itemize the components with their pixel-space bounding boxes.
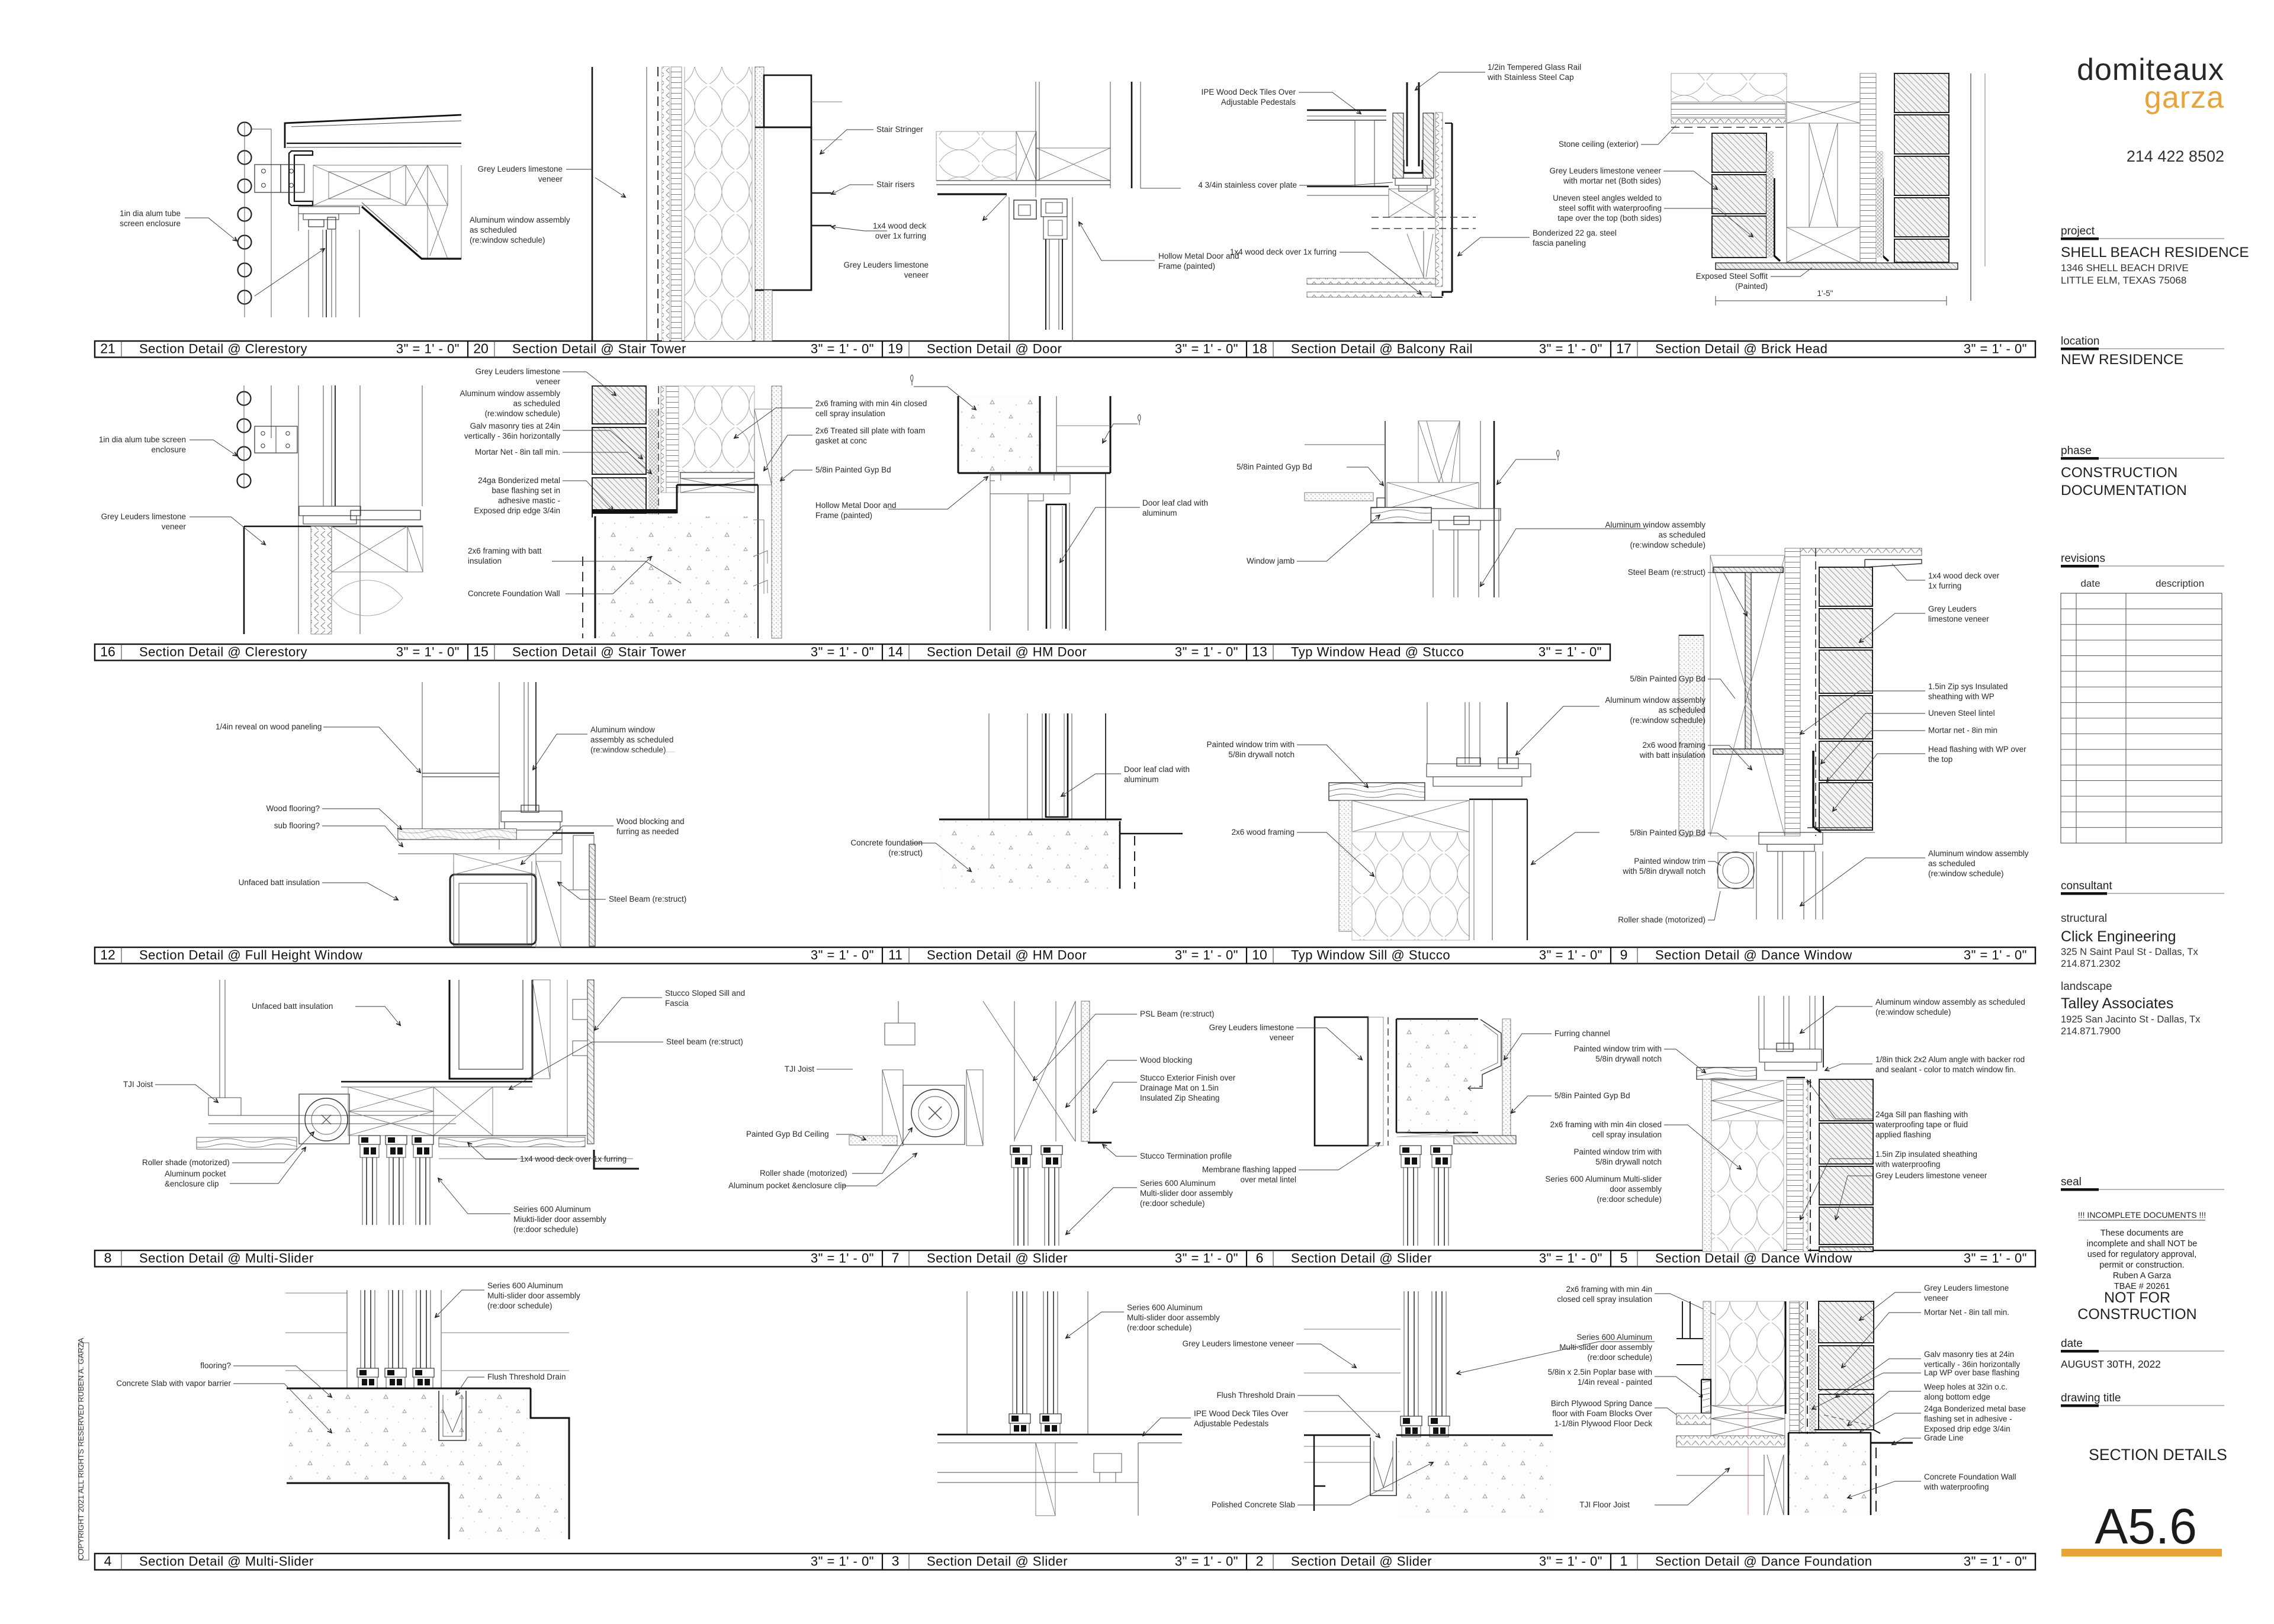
svg-text:Aluminum window assembly: Aluminum window assembly	[1928, 849, 2029, 858]
svg-text:veneer: veneer	[904, 271, 929, 279]
svg-text:4: 4	[104, 1554, 112, 1569]
svg-text:2x6 framing with min 4in close: 2x6 framing with min 4in closed	[815, 399, 927, 408]
svg-text:&enclosure clip: &enclosure clip	[165, 1179, 219, 1188]
svg-text:Galv masonry ties at 24in: Galv masonry ties at 24in	[470, 422, 560, 430]
svg-text:2x6 framing with min 4in close: 2x6 framing with min 4in closed	[1550, 1120, 1662, 1129]
svg-text:2x6 framing with min 4in: 2x6 framing with min 4in	[1566, 1285, 1652, 1294]
svg-text:Concrete Foundation Wall: Concrete Foundation Wall	[1924, 1472, 2016, 1481]
svg-text:enclosure: enclosure	[151, 445, 186, 454]
svg-text:floor with Foam Blocks Over: floor with Foam Blocks Over	[1552, 1409, 1652, 1418]
svg-text:15: 15	[473, 644, 489, 660]
svg-text:Mortar net - 8in min: Mortar net - 8in min	[1928, 726, 1997, 735]
svg-text:1-1/8in Plywood Floor Deck: 1-1/8in Plywood Floor Deck	[1554, 1419, 1652, 1428]
svg-text:Stucco Exterior Finish over: Stucco Exterior Finish over	[1140, 1073, 1236, 1082]
svg-text:Grey Leuders limestone veneer: Grey Leuders limestone veneer	[1183, 1339, 1295, 1348]
svg-text:Adjustable Pedestals: Adjustable Pedestals	[1221, 98, 1296, 107]
svg-text:1in dia alum tube: 1in dia alum tube	[120, 209, 181, 218]
svg-text:18: 18	[1252, 341, 1267, 356]
svg-text:drawing title: drawing title	[2061, 1392, 2121, 1404]
svg-text:24ga Sill pan flashing with: 24ga Sill pan flashing with	[1875, 1110, 1968, 1119]
svg-text:Grey Leuders limestone veneer: Grey Leuders limestone veneer	[1550, 166, 1662, 175]
svg-text:Stair Stringer: Stair Stringer	[876, 125, 923, 134]
svg-text:(re:window schedule): (re:window schedule)	[470, 236, 545, 245]
svg-text:(Painted): (Painted)	[1735, 282, 1768, 291]
svg-text:24ga Bonderized metal: 24ga Bonderized metal	[478, 476, 560, 485]
svg-text:door assembly: door assembly	[1610, 1185, 1662, 1194]
svg-text:Section Detail @ Full Height W: Section Detail @ Full Height Window	[139, 948, 362, 963]
svg-text:Exposed drip edge 3/4in: Exposed drip edge 3/4in	[474, 506, 560, 515]
svg-text:Uneven Steel lintel: Uneven Steel lintel	[1928, 709, 1995, 718]
svg-text:with waterproofing: with waterproofing	[1875, 1160, 1941, 1169]
svg-text:and sealant - color to match w: and sealant - color to match window fin.	[1875, 1065, 2016, 1074]
svg-text:Wood flooring?: Wood flooring?	[266, 804, 320, 813]
svg-text:Roller shade (motorized): Roller shade (motorized)	[142, 1158, 230, 1167]
svg-text:Painted window trim with: Painted window trim with	[1206, 740, 1295, 749]
svg-text:seal: seal	[2061, 1176, 2082, 1188]
svg-text:vertically - 36in horizontally: vertically - 36in horizontally	[1924, 1360, 2020, 1369]
svg-text:Flush Threshold Drain: Flush Threshold Drain	[1216, 1391, 1295, 1400]
svg-text:Fascia: Fascia	[665, 999, 689, 1008]
svg-text:A5.6: A5.6	[2095, 1498, 2197, 1554]
svg-text:CONSTRUCTION: CONSTRUCTION	[2061, 465, 2177, 481]
svg-text:1x4 wood deck over: 1x4 wood deck over	[1928, 571, 2000, 580]
svg-text:as scheduled: as scheduled	[470, 226, 517, 234]
svg-text:1x4 wood deck over 1x furring: 1x4 wood deck over 1x furring	[520, 1155, 627, 1163]
svg-text:LITTLE ELM, TEXAS 75068: LITTLE ELM, TEXAS 75068	[2061, 275, 2186, 286]
svg-text:Wood blocking and: Wood blocking and	[616, 817, 685, 826]
svg-text:2x6 wood framing: 2x6 wood framing	[1642, 741, 1705, 750]
svg-text:3" = 1' - 0": 3" = 1' - 0"	[1964, 948, 2027, 963]
svg-text:date: date	[2080, 578, 2100, 589]
svg-text:325 N Saint Paul St - Dallas,: 325 N Saint Paul St - Dallas, Tx	[2061, 947, 2198, 957]
svg-text:Mortar Net - 8in tall min.: Mortar Net - 8in tall min.	[1924, 1308, 2009, 1317]
svg-text:Grey Leuders limestone: Grey Leuders limestone	[1209, 1023, 1294, 1032]
svg-text:19: 19	[888, 341, 903, 356]
svg-text:Galv masonry ties at 24in: Galv masonry ties at 24in	[1924, 1350, 2014, 1359]
svg-text:DOCUMENTATION: DOCUMENTATION	[2061, 483, 2187, 499]
svg-text:Painted Gyp Bd Ceiling: Painted Gyp Bd Ceiling	[746, 1130, 829, 1139]
svg-text:insulation: insulation	[468, 557, 502, 565]
svg-text:Stone ceiling (exterior): Stone ceiling (exterior)	[1559, 140, 1639, 149]
svg-text:Section Detail @ Slider: Section Detail @ Slider	[1291, 1251, 1432, 1266]
svg-text:4 3/4in stainless cover plate: 4 3/4in stainless cover plate	[1198, 181, 1297, 189]
svg-text:Grey Leuders limestone: Grey Leuders limestone	[476, 367, 560, 376]
svg-text:Insulated Zip Sheating: Insulated Zip Sheating	[1140, 1094, 1219, 1102]
svg-text:as scheduled: as scheduled	[1658, 530, 1705, 539]
svg-text:veneer: veneer	[1270, 1033, 1295, 1042]
svg-text:garza: garza	[2144, 81, 2224, 115]
svg-text:Weep holes at 32in o.c.: Weep holes at 32in o.c.	[1924, 1382, 2008, 1391]
svg-text:214.871.7900: 214.871.7900	[2061, 1026, 2121, 1037]
svg-text:Section Detail @ Door: Section Detail @ Door	[927, 342, 1062, 356]
svg-text:Section Detail @ Dance Foundat: Section Detail @ Dance Foundation	[1655, 1554, 1872, 1569]
svg-text:closed cell spray insulation: closed cell spray insulation	[1557, 1295, 1652, 1304]
svg-text:as scheduled: as scheduled	[1928, 859, 1976, 868]
svg-text:veneer: veneer	[538, 175, 563, 184]
svg-text:3" = 1' - 0": 3" = 1' - 0"	[1964, 1554, 2027, 1569]
svg-text:5/8in x 2.5in Poplar base with: 5/8in x 2.5in Poplar base with	[1548, 1368, 1652, 1377]
svg-text:Grey Leuders: Grey Leuders	[1928, 604, 1977, 613]
svg-text:location: location	[2061, 335, 2100, 348]
svg-text:(re:window schedule): (re:window schedule)	[1630, 541, 1705, 549]
svg-text:Grey Leuders limestone: Grey Leuders limestone	[478, 165, 563, 173]
svg-text:Grade Line: Grade Line	[1924, 1433, 1964, 1442]
svg-text:3" = 1' - 0": 3" = 1' - 0"	[1539, 948, 1602, 963]
svg-text:These documents are: These documents are	[2100, 1229, 2183, 1238]
svg-text:flooring?: flooring?	[200, 1361, 231, 1370]
svg-text:Concrete foundation: Concrete foundation	[850, 838, 923, 847]
svg-text:veneer: veneer	[162, 522, 187, 531]
svg-text:3" = 1' - 0": 3" = 1' - 0"	[1964, 1251, 2027, 1266]
svg-text:project: project	[2061, 225, 2095, 237]
svg-text:with 5/8in drywall notch: with 5/8in drywall notch	[1622, 867, 1705, 876]
svg-text:214.871.2302: 214.871.2302	[2061, 959, 2121, 969]
svg-text:Talley Associates: Talley Associates	[2061, 995, 2173, 1012]
svg-text:steel soffit with waterproofin: steel soffit with waterproofing	[1559, 204, 1662, 213]
svg-text:Painted window trim with: Painted window trim with	[1573, 1044, 1662, 1053]
svg-text:Section Detail @ Stair Tower: Section Detail @ Stair Tower	[512, 342, 686, 356]
svg-text:Series 600 Aluminum: Series 600 Aluminum	[1127, 1303, 1203, 1312]
svg-text:Mortar Net - 8in tall min.: Mortar Net - 8in tall min.	[475, 448, 560, 456]
svg-text:Typ Window Sill @ Stucco: Typ Window Sill @ Stucco	[1291, 948, 1450, 963]
svg-text:Section Detail @ Balcony Rail: Section Detail @ Balcony Rail	[1291, 342, 1473, 356]
svg-text:Roller shade (motorized): Roller shade (motorized)	[1618, 915, 1705, 924]
svg-text:tape over the top (both sides): tape over the top (both sides)	[1557, 214, 1662, 223]
svg-text:(re:window schedule): (re:window schedule)	[1928, 869, 2004, 878]
svg-text:Frame (painted): Frame (painted)	[1158, 262, 1215, 271]
svg-text:furring as needed: furring as needed	[616, 827, 679, 836]
svg-text:1'-5": 1'-5"	[1817, 289, 1833, 298]
svg-text:Roller shade (motorized): Roller shade (motorized)	[760, 1169, 847, 1178]
svg-text:Section Detail @ Slider: Section Detail @ Slider	[927, 1251, 1068, 1266]
svg-text:as scheduled: as scheduled	[513, 399, 560, 408]
svg-text:PSL Beam (re:struct): PSL Beam (re:struct)	[1140, 1009, 1215, 1018]
svg-text:Unfaced batt insulation: Unfaced batt insulation	[252, 1002, 333, 1011]
svg-text:revisions: revisions	[2061, 552, 2105, 565]
svg-text:Aluminum window assembly: Aluminum window assembly	[1605, 696, 1705, 705]
svg-text:Aluminum window: Aluminum window	[590, 725, 655, 734]
svg-text:along bottom edge: along bottom edge	[1924, 1393, 1990, 1401]
svg-text:(re:door schedule): (re:door schedule)	[1127, 1323, 1192, 1332]
svg-text:Hollow Metal Door and: Hollow Metal Door and	[815, 501, 897, 510]
svg-text:TJI Joist: TJI Joist	[123, 1080, 153, 1089]
svg-text:Grey Leuders limestone: Grey Leuders limestone	[1924, 1284, 2009, 1292]
svg-text:5: 5	[1620, 1250, 1628, 1266]
svg-text:Seiries 600 Aluminum: Seiries 600 Aluminum	[513, 1205, 591, 1214]
svg-text:3" = 1' - 0": 3" = 1' - 0"	[1964, 342, 2027, 356]
svg-text:Section Detail @ Brick Head: Section Detail @ Brick Head	[1655, 342, 1827, 356]
svg-text:Head flashing with WP over: Head flashing with WP over	[1928, 745, 2026, 754]
svg-text:1: 1	[1620, 1554, 1628, 1569]
svg-text:Section Detail @ Dance Window: Section Detail @ Dance Window	[1655, 1251, 1852, 1266]
svg-text:TJI Floor Joist: TJI Floor Joist	[1579, 1500, 1630, 1509]
svg-text:Aluminum pocket &enclosure cli: Aluminum pocket &enclosure clip	[728, 1181, 846, 1190]
svg-text:21: 21	[100, 341, 115, 356]
svg-text:Aluminum window assembly: Aluminum window assembly	[470, 216, 570, 224]
svg-text:sub flooring?: sub flooring?	[274, 821, 320, 830]
svg-text:Aluminum window assembly as s: Aluminum window assembly as scheduled	[1875, 998, 2025, 1006]
svg-text:Series 600 Aluminum: Series 600 Aluminum	[1576, 1333, 1652, 1342]
svg-text:5/8in Painted Gyp Bd: 5/8in Painted Gyp Bd	[815, 465, 891, 474]
svg-text:incomplete and shall NOT be: incomplete and shall NOT be	[2087, 1239, 2198, 1249]
svg-text:Exposed Steel Soffit: Exposed Steel Soffit	[1696, 272, 1768, 281]
svg-text:Series 600 Aluminum Multi-slid: Series 600 Aluminum Multi-slider	[1545, 1175, 1662, 1184]
svg-text:Concrete Foundation Wall: Concrete Foundation Wall	[468, 589, 560, 598]
svg-text:phase: phase	[2061, 445, 2092, 457]
svg-text:5/8in Painted Gyp Bd: 5/8in Painted Gyp Bd	[1554, 1091, 1630, 1100]
svg-text:waterproofing tape or fluid: waterproofing tape or fluid	[1875, 1120, 1968, 1129]
svg-text:sheathing with WP: sheathing with WP	[1928, 692, 1994, 701]
svg-text:1.5in Zip sys Insulated: 1.5in Zip sys Insulated	[1928, 682, 2008, 691]
svg-text:Click Engineering: Click Engineering	[2061, 928, 2176, 945]
svg-text:assembly as scheduled: assembly as scheduled	[590, 735, 673, 744]
svg-text:3" = 1' - 0": 3" = 1' - 0"	[811, 948, 874, 963]
svg-text:3" = 1' - 0": 3" = 1' - 0"	[1175, 342, 1238, 356]
svg-text:1in dia alum tube screen: 1in dia alum tube screen	[99, 435, 186, 444]
svg-text:Uneven steel angles welded to: Uneven steel angles welded to	[1553, 194, 1662, 202]
svg-text:Aluminum window assembly: Aluminum window assembly	[1605, 520, 1705, 529]
svg-text:NOT FOR: NOT FOR	[2104, 1289, 2170, 1306]
svg-text:veneer: veneer	[536, 377, 561, 386]
svg-text:7: 7	[892, 1250, 900, 1266]
svg-text:3" = 1' - 0": 3" = 1' - 0"	[811, 645, 874, 660]
svg-text:as scheduled: as scheduled	[1658, 706, 1705, 715]
svg-text:Door leaf clad with: Door leaf clad with	[1124, 765, 1190, 774]
svg-text:3" = 1' - 0": 3" = 1' - 0"	[1175, 645, 1238, 660]
svg-text:Section Detail @ Slider: Section Detail @ Slider	[1291, 1554, 1432, 1569]
svg-text:3" = 1' - 0": 3" = 1' - 0"	[1539, 1251, 1602, 1266]
svg-text:AUGUST 30TH, 2022: AUGUST 30TH, 2022	[2061, 1358, 2161, 1370]
svg-text:TJI Joist: TJI Joist	[785, 1065, 815, 1073]
svg-text:flashing set in adhesive -: flashing set in adhesive -	[1924, 1414, 2012, 1423]
svg-text:NEW RESIDENCE: NEW RESIDENCE	[2061, 352, 2183, 368]
svg-text:5/8in Painted Gyp Bd: 5/8in Painted Gyp Bd	[1630, 828, 1705, 837]
svg-text:2x6 wood framing: 2x6 wood framing	[1231, 828, 1295, 837]
svg-text:Grey Leuders limestone: Grey Leuders limestone	[844, 261, 929, 269]
svg-text:Steel beam (re:struct): Steel beam (re:struct)	[666, 1037, 743, 1046]
svg-text:Section Detail @ Multi-Slider: Section Detail @ Multi-Slider	[139, 1554, 314, 1569]
svg-text:gasket at conc: gasket at conc	[815, 436, 867, 445]
svg-text:aluminum: aluminum	[1142, 509, 1177, 517]
svg-text:Flush Threshold Drain: Flush Threshold Drain	[487, 1372, 566, 1381]
svg-text:8: 8	[104, 1250, 112, 1266]
svg-text:Concrete Slab with vapor barri: Concrete Slab with vapor barrier	[116, 1379, 231, 1388]
svg-text:IPE Wood Deck Tiles Over: IPE Wood Deck Tiles Over	[1194, 1409, 1289, 1418]
svg-text:(re:door schedule): (re:door schedule)	[1587, 1353, 1652, 1362]
svg-text:Series 600 Aluminum: Series 600 Aluminum	[487, 1281, 563, 1290]
svg-text:1/4in reveal - painted: 1/4in reveal - painted	[1578, 1378, 1652, 1387]
svg-text:SECTION DETAILS: SECTION DETAILS	[2089, 1446, 2227, 1464]
svg-text:214 422 8502: 214 422 8502	[2127, 147, 2224, 165]
svg-text:3" = 1' - 0": 3" = 1' - 0"	[1175, 948, 1238, 963]
svg-text:12: 12	[100, 947, 115, 963]
svg-text:permit or construction.: permit or construction.	[2099, 1260, 2184, 1270]
svg-text:applied flashing: applied flashing	[1875, 1130, 1931, 1139]
svg-text:CONSTRUCTION: CONSTRUCTION	[2077, 1306, 2196, 1323]
svg-text:1/8in thick 2x2 Alum angle wit: 1/8in thick 2x2 Alum angle with backer r…	[1875, 1055, 2025, 1064]
svg-text:13: 13	[1252, 644, 1267, 660]
svg-text:Painted window trim: Painted window trim	[1634, 857, 1705, 866]
svg-text:2x6 Treated sill plate with fo: 2x6 Treated sill plate with foam	[815, 426, 925, 435]
svg-text:Grey Leuders limestone: Grey Leuders limestone	[101, 512, 186, 521]
svg-text:Door leaf clad with: Door leaf clad with	[1142, 499, 1208, 507]
svg-text:3" = 1' - 0": 3" = 1' - 0"	[811, 342, 874, 356]
svg-text:2: 2	[1256, 1554, 1264, 1569]
svg-text:Section Detail @ Clerestory: Section Detail @ Clerestory	[139, 342, 307, 356]
svg-text:1/2in Tempered Glass Rail: 1/2in Tempered Glass Rail	[1488, 63, 1581, 72]
svg-text:COPYRIGHT 2021 ALL RIGHTS: COPYRIGHT 2021 ALL RIGHTS RESERVED RUBEN…	[76, 1337, 85, 1560]
svg-text:Window jamb: Window jamb	[1247, 557, 1295, 565]
svg-text:(re:door schedule): (re:door schedule)	[487, 1301, 553, 1310]
svg-text:Section Detail @ Clerestory: Section Detail @ Clerestory	[139, 645, 307, 660]
svg-text:3" = 1' - 0": 3" = 1' - 0"	[1539, 1554, 1602, 1569]
svg-text:with waterproofing: with waterproofing	[1923, 1482, 1989, 1491]
svg-text:1x4 wood deck over 1x furring: 1x4 wood deck over 1x furring	[1230, 247, 1337, 256]
svg-text:(re:window schedule): (re:window schedule)	[1630, 716, 1705, 725]
svg-text:2x6 framing with batt: 2x6 framing with batt	[468, 546, 542, 555]
svg-text:Polished Concrete Slab: Polished Concrete Slab	[1212, 1500, 1295, 1509]
svg-text:1/4in reveal on wood paneling: 1/4in reveal on wood paneling	[216, 722, 322, 731]
svg-text:adhesive mastic -: adhesive mastic -	[498, 496, 560, 505]
svg-text:Painted window trim with: Painted window trim with	[1573, 1147, 1662, 1156]
svg-text:Adjustable Pedestals: Adjustable Pedestals	[1194, 1419, 1268, 1428]
svg-text:Section Detail @ Multi-Slider: Section Detail @ Multi-Slider	[139, 1251, 314, 1266]
svg-text:vertically - 36in horizontally: vertically - 36in horizontally	[464, 432, 560, 440]
svg-text:Bonderized 22 ga. steel: Bonderized 22 ga. steel	[1533, 229, 1617, 237]
svg-text:(re:window schedule): (re:window schedule)	[1875, 1008, 1951, 1017]
svg-text:3" = 1' - 0": 3" = 1' - 0"	[1539, 645, 1602, 660]
svg-text:(re:door schedule): (re:door schedule)	[1597, 1195, 1662, 1204]
svg-text:used for regulatory approval,: used for regulatory approval,	[2087, 1250, 2197, 1259]
svg-text:Furring channel: Furring channel	[1554, 1029, 1610, 1038]
svg-text:Section Detail @ Dance Window: Section Detail @ Dance Window	[1655, 948, 1852, 963]
svg-text:11: 11	[888, 947, 902, 963]
svg-text:10: 10	[1252, 947, 1267, 963]
svg-text:(re:window schedule): (re:window schedule)	[590, 745, 666, 754]
svg-text:Steel Beam (re:struct): Steel Beam (re:struct)	[1628, 568, 1705, 577]
svg-text:Stucco Sloped Sill and: Stucco Sloped Sill and	[665, 989, 745, 998]
svg-text:Membrane flashing lapped: Membrane flashing lapped	[1202, 1165, 1296, 1174]
svg-text:17: 17	[1616, 341, 1631, 356]
svg-text:Section Detail @ Stair Tower: Section Detail @ Stair Tower	[512, 645, 686, 660]
svg-text:Multi-slider door assembly: Multi-slider door assembly	[1140, 1189, 1233, 1198]
svg-text:description: description	[2156, 578, 2204, 589]
svg-text:9: 9	[1620, 947, 1628, 963]
svg-text:Miukti-lider door assembly: Miukti-lider door assembly	[513, 1215, 606, 1224]
svg-text:Section Detail @ Slider: Section Detail @ Slider	[927, 1554, 1068, 1569]
svg-text:Section Detail @ HM Door: Section Detail @ HM Door	[927, 948, 1087, 963]
svg-text:Drainage Mat on 1.5in: Drainage Mat on 1.5in	[1140, 1083, 1219, 1092]
svg-text:over 1x furring: over 1x furring	[875, 231, 926, 240]
svg-text:aluminum: aluminum	[1124, 775, 1159, 784]
svg-text:cell spray insulation: cell spray insulation	[815, 409, 885, 418]
svg-text:Grey Leuders limestone veneer: Grey Leuders limestone veneer	[1875, 1171, 1987, 1180]
svg-text:Steel Beam (re:struct): Steel Beam (re:struct)	[609, 895, 686, 903]
svg-text:screen enclosure: screen enclosure	[120, 219, 181, 228]
svg-text:Lap WP over base flashing: Lap WP over base flashing	[1924, 1368, 2019, 1377]
svg-text:3" = 1' - 0": 3" = 1' - 0"	[396, 342, 460, 356]
svg-text:24ga Bonderized metal base: 24ga Bonderized metal base	[1924, 1404, 2026, 1413]
svg-text:Unfaced batt insulation: Unfaced batt insulation	[239, 878, 320, 887]
svg-text:3" = 1' - 0": 3" = 1' - 0"	[1539, 342, 1602, 356]
svg-text:Stucco Termination profile: Stucco Termination profile	[1140, 1152, 1232, 1160]
svg-text:3" = 1' - 0": 3" = 1' - 0"	[1175, 1554, 1238, 1569]
svg-text:Exposed drip edge 3/4in: Exposed drip edge 3/4in	[1924, 1424, 2010, 1433]
svg-text:1346 SHELL BEACH DRIVE: 1346 SHELL BEACH DRIVE	[2061, 262, 2189, 274]
svg-text:with batt insulation: with batt insulation	[1639, 751, 1705, 760]
svg-text:Series 600 Aluminum: Series 600 Aluminum	[1140, 1179, 1216, 1188]
svg-text:5/8in drywall notch: 5/8in drywall notch	[1228, 750, 1295, 759]
svg-text:5/8in Painted Gyp Bd: 5/8in Painted Gyp Bd	[1236, 462, 1312, 471]
svg-text:IPE Wood Deck Tiles Over: IPE Wood Deck Tiles Over	[1201, 88, 1296, 97]
svg-text:landscape: landscape	[2061, 980, 2112, 993]
svg-text:6: 6	[1256, 1250, 1264, 1266]
svg-text:structural: structural	[2061, 912, 2107, 925]
svg-text:3" = 1' - 0": 3" = 1' - 0"	[396, 645, 460, 660]
svg-text:!!! INCOMPLETE DOCUMENTS !!!: !!! INCOMPLETE DOCUMENTS !!!	[2078, 1210, 2206, 1220]
svg-text:1.5in Zip insulated sheathing: 1.5in Zip insulated sheathing	[1875, 1150, 1977, 1159]
svg-text:with Stainless Steel Cap: with Stainless Steel Cap	[1487, 73, 1574, 82]
svg-text:Aluminum window assembly: Aluminum window assembly	[460, 389, 560, 398]
svg-text:veneer: veneer	[1924, 1294, 1949, 1303]
svg-text:20: 20	[473, 341, 489, 356]
svg-text:Aluminum pocket: Aluminum pocket	[165, 1169, 226, 1178]
svg-text:consultant: consultant	[2061, 880, 2112, 892]
svg-text:limestone veneer: limestone veneer	[1928, 615, 1989, 623]
svg-text:with mortar net (Both sides): with mortar net (Both sides)	[1563, 176, 1661, 185]
svg-text:over metal lintel: over metal lintel	[1240, 1175, 1296, 1184]
svg-text:Ruben A Garza: Ruben A Garza	[2113, 1271, 2172, 1281]
svg-text:(re:window schedule): (re:window schedule)	[484, 409, 560, 418]
svg-text:5/8in drywall notch: 5/8in drywall notch	[1595, 1157, 1662, 1166]
svg-text:the top: the top	[1928, 755, 1952, 764]
svg-text:(re:door schedule): (re:door schedule)	[1140, 1199, 1205, 1208]
svg-text:Section Detail @ HM Door: Section Detail @ HM Door	[927, 645, 1087, 660]
svg-text:5/8in Painted Gyp Bd: 5/8in Painted Gyp Bd	[1630, 674, 1705, 683]
svg-text:Typ Window Head @ Stucco: Typ Window Head @ Stucco	[1291, 645, 1464, 660]
svg-text:3" = 1' - 0": 3" = 1' - 0"	[811, 1251, 874, 1266]
svg-text:base flashing set in: base flashing set in	[492, 486, 560, 495]
svg-text:3: 3	[892, 1554, 900, 1569]
svg-text:(re:door schedule): (re:door schedule)	[513, 1225, 579, 1234]
svg-text:fascia paneling: fascia paneling	[1533, 239, 1586, 247]
svg-text:Multi-slider door assembly: Multi-slider door assembly	[1127, 1313, 1220, 1322]
svg-text:1925 San Jacinto St - Dallas,: 1925 San Jacinto St - Dallas, Tx	[2061, 1014, 2201, 1025]
svg-text:14: 14	[888, 644, 903, 660]
svg-text:(re:struct): (re:struct)	[888, 848, 923, 857]
svg-text:Stair risers: Stair risers	[876, 180, 915, 189]
svg-text:3" = 1' - 0": 3" = 1' - 0"	[811, 1554, 874, 1569]
svg-text:16: 16	[100, 644, 115, 660]
svg-text:Hollow Metal Door and: Hollow Metal Door and	[1158, 252, 1239, 261]
svg-text:Birch Plywood Spring Dance: Birch Plywood Spring Dance	[1551, 1399, 1652, 1408]
svg-text:1x furring: 1x furring	[1928, 581, 1961, 590]
svg-text:3" = 1' - 0": 3" = 1' - 0"	[1175, 1251, 1238, 1266]
svg-text:date: date	[2061, 1337, 2083, 1350]
svg-text:cell spray insulation: cell spray insulation	[1592, 1130, 1662, 1139]
svg-text:5/8in drywall notch: 5/8in drywall notch	[1595, 1054, 1662, 1063]
svg-text:Wood blocking: Wood blocking	[1140, 1056, 1192, 1065]
svg-text:SHELL BEACH RESIDENCE: SHELL BEACH RESIDENCE	[2061, 245, 2249, 261]
svg-text:1x4 wood deck: 1x4 wood deck	[873, 221, 926, 230]
svg-text:Multi-slider door assembly: Multi-slider door assembly	[487, 1291, 580, 1300]
svg-text:Frame (painted): Frame (painted)	[815, 511, 872, 520]
